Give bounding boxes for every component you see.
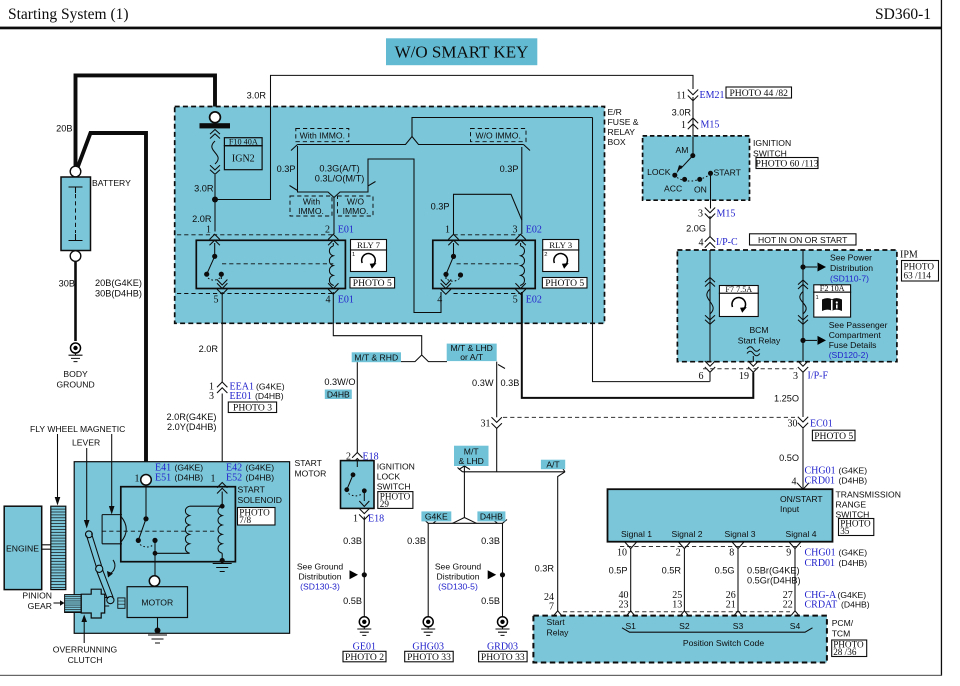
svg-text:20B(G4KE): 20B(G4KE) — [95, 278, 142, 288]
relay RLY7 connector dashes bottom — [177, 293, 333, 295]
relay RLY7 mech link dashed — [222, 263, 333, 265]
PHOTO 33 box right — [479, 651, 527, 662]
svg-text:BCM: BCM — [749, 325, 768, 335]
connector 31 EC01 — [492, 417, 502, 428]
PHOTO 2 box — [343, 651, 386, 662]
svg-text:TRANSMISSION: TRANSMISSION — [836, 490, 901, 500]
svg-text:OVERRUNNING: OVERRUNNING — [53, 645, 118, 655]
motor terminal circle — [149, 576, 159, 586]
svg-text:(SD130-5): (SD130-5) — [438, 582, 478, 592]
S4 connector — [789, 611, 801, 618]
fuse label box F2 10A with book icon — [814, 285, 851, 292]
IPM right branch wire — [802, 250, 804, 362]
svg-text:5: 5 — [513, 294, 518, 305]
ground GRD03 — [498, 617, 508, 627]
svg-text:1: 1 — [352, 252, 355, 258]
svg-text:1: 1 — [445, 225, 450, 236]
svg-text:EE01: EE01 — [230, 391, 252, 402]
W/O IMMO top option label — [471, 129, 527, 142]
connector E18 pin2 — [352, 453, 362, 464]
svg-text:4: 4 — [792, 477, 797, 488]
motor ground — [157, 618, 159, 632]
svg-text:LOCK: LOCK — [647, 167, 671, 177]
svg-text:22: 22 — [783, 600, 793, 611]
svg-text:0.3G(A/T): 0.3G(A/T) — [319, 164, 359, 174]
svg-text:0.3W/O: 0.3W/O — [324, 377, 355, 387]
wire EEA1 to start motor E42 — [221, 394, 223, 483]
svg-text:(G4KE): (G4KE) — [175, 462, 204, 472]
svg-text:I/P-C: I/P-C — [716, 237, 738, 248]
W/O IMMO small option box — [338, 196, 374, 216]
svg-text:See Passenger: See Passenger — [829, 320, 888, 330]
svg-text:W/O SMART KEY: W/O SMART KEY — [395, 43, 529, 62]
svg-text:BODY: BODY — [63, 369, 88, 379]
coil2 to ground — [221, 553, 223, 563]
svg-text:Start Relay: Start Relay — [738, 336, 781, 346]
svg-text:Signal 2: Signal 2 — [671, 529, 702, 539]
svg-text:PHOTO 5: PHOTO 5 — [353, 278, 392, 289]
connector M15 pin3 — [705, 208, 715, 219]
motor box — [127, 587, 187, 618]
svg-text:9: 9 — [786, 548, 791, 559]
svg-text:2.0R: 2.0R — [192, 214, 212, 224]
ground GE01 — [359, 617, 369, 627]
PHOTO 5 box relay1 — [350, 278, 395, 289]
svg-text:E02: E02 — [526, 225, 542, 236]
connector start relay pin24/7 — [552, 611, 564, 618]
svg-text:Start: Start — [547, 617, 566, 627]
svg-text:0.3B: 0.3B — [407, 536, 426, 546]
svg-text:(D4HB): (D4HB) — [255, 391, 284, 401]
relay RLY7 switch — [212, 254, 217, 259]
IPM connector dashed row — [703, 368, 797, 370]
With IMMO small option box — [290, 196, 332, 216]
svg-text:Signal 3: Signal 3 — [724, 529, 755, 539]
junction node 3.0R branch — [212, 197, 218, 203]
hold-in coil — [218, 506, 222, 553]
svg-text:ON/START: ON/START — [780, 494, 823, 504]
node power dist branch — [800, 264, 805, 269]
svg-text:S2: S2 — [679, 621, 690, 631]
svg-text:0.5Gr(D4HB): 0.5Gr(D4HB) — [747, 576, 801, 586]
M/T & LHD or A/T option label — [447, 344, 497, 362]
svg-text:RELAY: RELAY — [608, 127, 636, 137]
svg-text:CLUTCH: CLUTCH — [68, 655, 103, 665]
svg-text:(G4KE): (G4KE) — [839, 548, 868, 558]
svg-text:E01: E01 — [338, 225, 354, 236]
wire 0.3P w/o-immo branch to relay2 pin3 — [522, 145, 530, 235]
svg-text:G4KE: G4KE — [425, 512, 448, 522]
D4HB option label — [325, 390, 352, 400]
svg-text:0.3W: 0.3W — [472, 378, 494, 388]
svg-text:E18: E18 — [368, 514, 384, 525]
magnetic plate bracket — [102, 515, 122, 544]
svg-text:PINION: PINION — [22, 591, 52, 601]
svg-text:RLY 3: RLY 3 — [549, 240, 573, 250]
M/T & LHD option label — [454, 446, 489, 466]
svg-text:IGNITION: IGNITION — [753, 138, 791, 148]
wire I/P-F to EC01 — [802, 373, 804, 418]
right border — [941, 0, 942, 676]
svg-text:10: 10 — [617, 548, 627, 559]
svg-text:3: 3 — [513, 225, 518, 236]
ignition switch contacts — [690, 153, 695, 158]
svg-text:Input: Input — [780, 504, 800, 514]
solenoid plunger dashed line — [102, 530, 217, 532]
connector E18 pin1 — [359, 508, 369, 519]
svg-text:PHOTO 2: PHOTO 2 — [345, 652, 384, 663]
svg-text:3.0R: 3.0R — [672, 108, 692, 118]
wire 31 down and split M/T&LHD vs A/T — [458, 429, 566, 612]
underbrace position switch code — [622, 628, 813, 632]
svg-text:S4: S4 — [790, 621, 801, 631]
svg-text:4: 4 — [326, 294, 331, 305]
start motor box — [74, 462, 289, 634]
svg-text:HOT IN ON OR START: HOT IN ON OR START — [758, 235, 848, 245]
svg-text:See Ground: See Ground — [297, 562, 344, 572]
wire switch to motor — [154, 553, 156, 576]
svg-text:0.5Br(G4KE): 0.5Br(G4KE) — [747, 566, 800, 576]
relay RLY3 box — [433, 240, 535, 288]
svg-text:2: 2 — [544, 252, 547, 258]
PHOTO 3 box — [228, 402, 276, 413]
bottom rule — [0, 675, 942, 676]
svg-text:0.5R: 0.5R — [662, 566, 682, 576]
svg-text:W/O: W/O — [347, 197, 364, 207]
PHOTO 5 box relay2 — [542, 278, 587, 289]
svg-text:7: 7 — [549, 602, 554, 613]
PHOTO 33 box — [405, 651, 454, 662]
svg-text:2.0R(G4KE): 2.0R(G4KE) — [166, 412, 216, 422]
svg-text:1: 1 — [816, 295, 819, 301]
svg-text:MOTOR: MOTOR — [295, 469, 327, 479]
wire 3.0R to EM21 — [215, 75, 693, 199]
svg-text:EC01: EC01 — [810, 419, 833, 430]
relay RLY3 pin4 connector — [441, 283, 451, 294]
svg-text:CRD01: CRD01 — [805, 558, 836, 569]
svg-text:Distribution: Distribution — [299, 572, 342, 582]
svg-text:F2 10A: F2 10A — [820, 284, 845, 293]
svg-text:30B(D4HB): 30B(D4HB) — [95, 289, 142, 299]
svg-text:1: 1 — [211, 474, 216, 485]
svg-text:W/O IMMO.: W/O IMMO. — [476, 131, 521, 141]
svg-text:D4HB: D4HB — [327, 389, 350, 399]
svg-text:Compartment: Compartment — [829, 330, 882, 340]
svg-text:Distribution: Distribution — [830, 263, 873, 273]
svg-text:E01: E01 — [338, 294, 354, 305]
PHOTO 29 box — [378, 492, 413, 509]
svg-text:4: 4 — [699, 238, 704, 249]
relay RLY3 mech link dashed — [457, 263, 521, 265]
svg-text:19: 19 — [739, 371, 749, 382]
With IMMO top option label — [296, 129, 349, 142]
wire 0.3P with-immo branch — [290, 145, 335, 235]
svg-text:23: 23 — [619, 600, 629, 611]
PHOTO 7/8 box — [238, 508, 276, 526]
svg-text:SOLENOID: SOLENOID — [238, 495, 282, 505]
junction arrow SD130-3 — [350, 570, 359, 579]
svg-text:21: 21 — [726, 600, 736, 611]
dashed link 31 to 30 — [503, 416, 795, 418]
IPM left branch wire — [709, 250, 711, 362]
svg-text:2.0G: 2.0G — [686, 224, 706, 234]
HOT IN ON OR START box — [750, 234, 857, 245]
svg-text:PHOTO 5: PHOTO 5 — [814, 431, 853, 442]
svg-text:0.5P: 0.5P — [609, 566, 628, 576]
svg-text:3: 3 — [793, 371, 798, 382]
svg-text:(D4HB): (D4HB) — [175, 472, 204, 482]
relay RLY3 coil — [520, 243, 522, 246]
pinion gear — [65, 595, 82, 613]
svg-text:PCM/: PCM/ — [832, 618, 854, 628]
relay RLY7 pin2 connector — [328, 234, 338, 245]
svg-text:3.0R: 3.0R — [247, 91, 267, 101]
svg-text:(G4KE): (G4KE) — [246, 462, 275, 472]
svg-text:& LHD: & LHD — [459, 456, 484, 466]
PHOTO 63/114 box — [902, 261, 939, 282]
svg-text:or A/T: or A/T — [460, 352, 484, 362]
svg-text:Signal 1: Signal 1 — [621, 529, 652, 539]
pull-in coil — [185, 506, 189, 553]
svg-text:5: 5 — [214, 294, 219, 305]
solenoid coils top rail — [190, 492, 223, 507]
svg-text:3.0R: 3.0R — [194, 184, 214, 194]
relay RLY7 coil — [332, 243, 334, 246]
flywheel teeth — [51, 508, 66, 510]
svg-text:(D4HB): (D4HB) — [839, 476, 868, 486]
S3 connector — [732, 611, 744, 618]
relay RLY7 pin4 connector — [328, 283, 338, 294]
svg-text:Fuse Details: Fuse Details — [829, 340, 877, 350]
svg-text:FLY WHEEL MAGNETIC: FLY WHEEL MAGNETIC — [30, 424, 125, 434]
pointer magnetic — [111, 434, 113, 507]
svg-text:0.3P: 0.3P — [431, 202, 450, 212]
PHOTO 5 box EC01 — [812, 430, 855, 441]
svg-text:E02: E02 — [526, 294, 542, 305]
connector EEA1/EE01 — [217, 382, 227, 393]
overrunning clutch housing — [81, 589, 105, 618]
svg-text:E/R: E/R — [608, 107, 622, 117]
svg-text:0.5B: 0.5B — [481, 596, 500, 606]
engine box — [4, 506, 42, 589]
svg-text:1.25O: 1.25O — [774, 394, 799, 404]
wire battery to body ground — [74, 262, 77, 342]
svg-text:PHOTO 33: PHOTO 33 — [407, 652, 451, 663]
ignition switch box — [643, 136, 750, 200]
svg-text:IPM: IPM — [900, 250, 918, 261]
wire EM21 to M15 — [692, 97, 694, 156]
junction arrow SD130-5 — [488, 570, 497, 579]
svg-text:SWITCH: SWITCH — [377, 482, 411, 492]
svg-text:M15: M15 — [701, 120, 720, 131]
svg-text:30: 30 — [788, 419, 798, 430]
svg-text:RLY 7: RLY 7 — [357, 240, 381, 250]
connector EM21 pin11 — [688, 90, 698, 101]
svg-text:TCM: TCM — [832, 628, 851, 638]
svg-text:13: 13 — [672, 600, 682, 611]
svg-text:(G4KE): (G4KE) — [838, 590, 867, 600]
svg-text:2: 2 — [325, 225, 330, 236]
ground GHG03 — [423, 617, 433, 627]
fuse label box F7 7.5A — [719, 286, 758, 294]
svg-text:0.3P: 0.3P — [277, 164, 296, 174]
svg-text:PHOTO 60 /113: PHOTO 60 /113 — [756, 159, 819, 170]
svg-text:E52: E52 — [226, 472, 242, 483]
svg-text:0.5G: 0.5G — [715, 566, 735, 576]
svg-text:SD360-1: SD360-1 — [875, 6, 931, 23]
engine-flywheel coupling — [42, 545, 51, 549]
svg-text:2.0Y(D4HB): 2.0Y(D4HB) — [167, 422, 217, 432]
svg-text:3: 3 — [698, 209, 703, 220]
PCM connector dashed row — [563, 611, 790, 613]
wire under M/T&LHD label — [453, 466, 477, 523]
svg-text:(G4KE): (G4KE) — [256, 382, 285, 392]
svg-text:F7 7.5A: F7 7.5A — [725, 285, 752, 294]
svg-text:0.5B: 0.5B — [343, 596, 362, 606]
svg-text:Position Switch Code: Position Switch Code — [683, 638, 764, 648]
wire W/O-IMMO feed (from IPM pin6) — [298, 118, 593, 145]
relay RLY3 switch — [451, 254, 456, 259]
svg-text:1: 1 — [206, 225, 211, 236]
pointer flywheel — [57, 434, 59, 498]
svg-text:AM: AM — [676, 145, 689, 155]
ignition lock switch box — [341, 461, 375, 509]
svg-text:0.3B: 0.3B — [343, 536, 362, 546]
relay RLY3 connector dashes bottom — [454, 293, 521, 295]
M/T & RHD option label — [352, 352, 401, 362]
wire battery to E/R box busbar (thick) — [76, 75, 216, 168]
PHOTO 60/113 box — [756, 158, 818, 169]
wire relay2 pin5 to IPM pin19 (start signal) — [522, 292, 754, 398]
E/R fuse & relay box — [175, 107, 605, 324]
PCM/TCM box — [533, 616, 827, 663]
svg-text:2.0R: 2.0R — [199, 344, 219, 354]
wire E18 to GE01 — [363, 517, 365, 618]
IPM pin6 connector — [705, 361, 715, 372]
top rule — [0, 27, 942, 30]
connector I/P-C pin4 — [705, 237, 715, 248]
svg-text:M15: M15 — [717, 209, 736, 220]
G4KE option label — [421, 511, 451, 521]
title box W/O SMART KEY — [386, 38, 537, 65]
svg-text:0.3L/O(M/T): 0.3L/O(M/T) — [315, 174, 365, 184]
svg-text:(D4HB): (D4HB) — [246, 472, 275, 482]
svg-text:A/T: A/T — [546, 460, 560, 470]
signal wires — [631, 549, 795, 611]
svg-text:BOX: BOX — [608, 137, 626, 147]
node passenger fuse branch — [800, 338, 805, 343]
wire ignition START to IPM — [693, 137, 711, 237]
lever arm — [87, 534, 114, 600]
svg-text:(SD110-7): (SD110-7) — [830, 274, 869, 284]
svg-text:S3: S3 — [733, 621, 744, 631]
svg-text:PHOTO 5: PHOTO 5 — [545, 278, 584, 289]
BCM relay coil symbol pin19 — [747, 347, 760, 356]
svg-text:35: 35 — [840, 526, 850, 536]
signal4 connector top — [789, 542, 801, 549]
relay RLY7 connector dashes top — [177, 234, 333, 236]
start solenoid box — [121, 487, 236, 562]
svg-text:E51: E51 — [155, 472, 171, 483]
relay RLY3 pin5 connector — [515, 283, 525, 294]
svg-text:IGN2: IGN2 — [232, 154, 255, 165]
svg-text:BATTERY: BATTERY — [92, 178, 131, 188]
trans switch connector dashed row — [620, 546, 801, 548]
svg-text:4: 4 — [437, 294, 442, 305]
wire M/T & RHD branch to E18 — [356, 362, 358, 452]
svg-text:Relay: Relay — [547, 627, 570, 637]
svg-text:0.3B: 0.3B — [481, 536, 500, 546]
signal1 connector top — [625, 542, 637, 549]
wire relay2 pin1 branch — [454, 194, 522, 234]
svg-text:1: 1 — [353, 514, 358, 525]
book icon — [822, 298, 842, 311]
signal3 connector top — [732, 542, 744, 549]
wire G4KE / D4HB split — [424, 520, 507, 618]
IPM pin19 connector — [748, 361, 758, 372]
busbar bar — [200, 123, 231, 128]
svg-text:RANGE: RANGE — [836, 500, 867, 510]
transmission range switch box — [608, 489, 833, 542]
svg-text:IMMO.: IMMO. — [343, 206, 369, 216]
wire IPM pin6 stub — [709, 373, 711, 382]
signal2 connector top — [678, 542, 690, 549]
svg-text:With IMMO.: With IMMO. — [300, 131, 345, 141]
svg-text:PHOTO 3: PHOTO 3 — [233, 403, 272, 414]
svg-text:With: With — [303, 197, 320, 207]
svg-text:CRDAT: CRDAT — [805, 600, 838, 611]
battery — [61, 177, 91, 251]
ignition lock switch contacts — [351, 472, 356, 477]
RLY 7 label box — [351, 240, 387, 251]
svg-text:ACC: ACC — [664, 184, 682, 194]
svg-text:D4HB: D4HB — [480, 512, 503, 522]
clutch output hatch — [118, 598, 125, 608]
svg-text:Signal 4: Signal 4 — [785, 529, 816, 539]
svg-text:11: 11 — [676, 91, 686, 102]
svg-text:8: 8 — [729, 548, 734, 559]
svg-text:28 /36: 28 /36 — [833, 647, 857, 657]
svg-text:LOCK: LOCK — [377, 472, 401, 482]
svg-text:6: 6 — [699, 371, 704, 382]
svg-text:1: 1 — [681, 120, 686, 131]
wire EC01 to CHG01 connector — [802, 429, 804, 490]
svg-text:CHG01: CHG01 — [805, 548, 836, 559]
svg-text:2: 2 — [676, 548, 681, 559]
relay RLY7 box — [196, 240, 345, 288]
connector CHG01/CRD01 pin4 — [797, 483, 809, 490]
svg-text:START: START — [295, 458, 323, 468]
svg-text:3: 3 — [209, 391, 214, 402]
svg-text:ENGINE: ENGINE — [6, 544, 39, 554]
svg-text:SWITCH: SWITCH — [753, 148, 787, 158]
connector M15 pin1 — [688, 118, 698, 129]
svg-text:See Power: See Power — [830, 253, 872, 263]
IPM pin3 I/P-F connector — [798, 361, 808, 372]
fuse label box F10 40A / IGN2 — [224, 138, 262, 146]
RLY 3 label box — [543, 240, 579, 251]
svg-text:Starting System (1): Starting System (1) — [8, 6, 129, 23]
svg-text:PHOTO 44 /82: PHOTO 44 /82 — [729, 88, 788, 99]
svg-text:31: 31 — [481, 419, 491, 430]
svg-text:EM21: EM21 — [700, 90, 725, 101]
svg-text:CRD01: CRD01 — [805, 476, 836, 487]
wire 0.3G/0.3L option branch (relay2 pin4 to merge) — [334, 159, 441, 313]
svg-text:0.3R: 0.3R — [535, 564, 555, 574]
svg-text:FUSE &: FUSE & — [608, 117, 639, 127]
svg-text:F10 40A: F10 40A — [229, 138, 258, 147]
relay RLY7 pin1 connector — [210, 234, 220, 245]
